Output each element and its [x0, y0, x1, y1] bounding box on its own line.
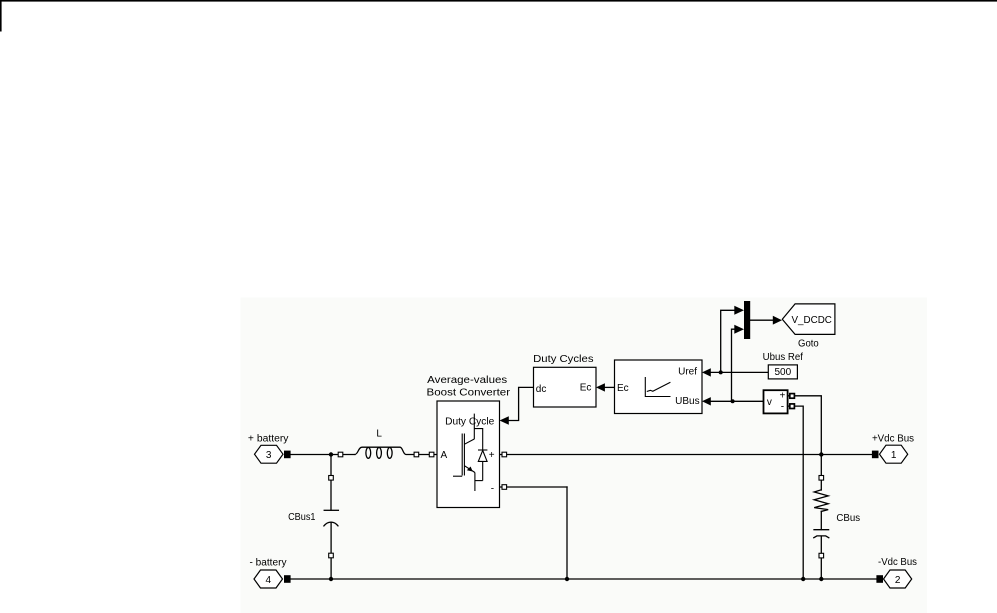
port square inductor left	[338, 452, 343, 457]
inductor L loop 3	[387, 448, 392, 459]
window top border	[0, 0, 997, 2]
diode-emitter join	[475, 480, 483, 482]
port square converter input A	[429, 452, 434, 457]
IGBT gate lead	[453, 475, 462, 477]
port connector square at port 2	[876, 575, 883, 583]
svg-text:Uref: Uref	[678, 367, 697, 378]
port connector square at port 3	[284, 451, 291, 459]
svg-text:-: -	[781, 401, 784, 412]
arrowhead into Goto tag	[773, 316, 782, 325]
svg-text:+: +	[780, 391, 786, 402]
svg-text:Boost Converter: Boost Converter	[427, 387, 511, 398]
svg-text:v: v	[767, 397, 772, 408]
junction node at CBus1 top	[329, 452, 333, 456]
IGBT gate bar left	[461, 434, 463, 476]
svg-text:Duty Cycles: Duty Cycles	[533, 354, 593, 365]
svg-text:Goto: Goto	[798, 338, 819, 349]
block Duty Cycles	[534, 367, 597, 407]
arrowhead into mux input 1	[734, 306, 744, 315]
svg-text:500: 500	[774, 367, 791, 378]
voltage measurement block v	[764, 390, 788, 413]
wire v- down to bottom bus	[788, 406, 804, 579]
svg-text:+Vdc Bus: +Vdc Bus	[872, 433, 914, 444]
canvas tint region	[241, 298, 928, 613]
mux block	[744, 301, 750, 339]
wire converter - output down to bottom bus	[566, 487, 568, 579]
junction node converter minus at bottom bus	[565, 577, 569, 581]
junction node v- at bottom bus	[801, 577, 805, 581]
arrowhead into mux input 2	[734, 325, 744, 334]
wire resistor to capacitor CBus	[820, 511, 822, 529]
svg-text:Ec: Ec	[617, 383, 629, 394]
port connector square at port 4	[284, 575, 291, 583]
port square CBus1 bottom	[329, 553, 334, 558]
svg-text:CBus: CBus	[836, 513, 860, 524]
block Average-values Boost Converter	[437, 401, 500, 508]
v block port square +	[790, 394, 795, 399]
block voltage regulator	[615, 360, 703, 414]
svg-text:Duty Cycle: Duty Cycle	[445, 417, 495, 428]
wire inductor to converter input A	[414, 454, 437, 456]
svg-text:1: 1	[891, 450, 897, 461]
IGBT collector diagonal	[464, 439, 474, 444]
v block port square -	[790, 404, 795, 409]
arrowhead into controller UBus input	[702, 397, 711, 405]
svg-text:3: 3	[266, 450, 272, 461]
svg-text:- battery: - battery	[250, 557, 287, 568]
wire mux input 2 from UBus node	[732, 329, 736, 401]
svg-text:2: 2	[895, 575, 901, 586]
IGBT emitter diagonal	[464, 466, 475, 473]
wire CBus branch lower	[820, 536, 822, 579]
port square CBus bottom	[819, 553, 824, 558]
IGBT gate bar right	[463, 434, 465, 476]
wire bottom bus	[291, 578, 877, 580]
svg-text:-Vdc Bus: -Vdc Bus	[878, 557, 917, 568]
inductor L coil path	[355, 447, 414, 454]
junction node Uref line to mux	[719, 370, 723, 374]
diode D cathode bar	[478, 449, 487, 451]
port connector square at port 1	[872, 451, 879, 459]
port square inductor right	[414, 452, 419, 457]
wire converter - output rightward	[500, 486, 568, 488]
junction node CBus bottom	[819, 577, 823, 581]
capacitor CBus lower plate	[814, 536, 829, 538]
port square CBus top	[819, 476, 824, 481]
IGBT Q collector lead vertical	[473, 414, 475, 440]
svg-text:CBus1: CBus1	[288, 512, 316, 523]
junction node at CBus top / v+	[819, 452, 823, 456]
svg-text:+: +	[489, 450, 495, 461]
arrowhead into converter Duty Cycle port	[500, 416, 509, 425]
wire Ec controller to Duty Cycles	[604, 386, 615, 388]
port square converter output +	[502, 452, 507, 457]
svg-text:V_DCDC: V_DCDC	[792, 315, 832, 326]
svg-text:Average-values: Average-values	[427, 375, 507, 386]
constant block Ubus Ref 500	[768, 365, 797, 379]
wire CBus branch upper	[820, 455, 822, 491]
inport 4 hexagon	[254, 570, 283, 588]
resistor CBus R zigzag	[814, 490, 828, 512]
capacitor CBus top plate	[814, 529, 829, 531]
inductor L loop 1	[366, 448, 371, 459]
diode D anode lead	[482, 461, 484, 480]
capacitor CBus1 top plate	[324, 509, 338, 511]
diode D triangle	[478, 450, 487, 461]
outport 2 hexagon	[884, 570, 912, 588]
wire UBus measurement to controller	[710, 400, 764, 402]
inport 3 hexagon	[255, 445, 284, 463]
wire dc output of Duty Cycles to converter Duty Cycle port	[508, 387, 534, 420]
port square CBus1 top	[329, 476, 334, 481]
wire mux output to Goto	[750, 319, 773, 321]
arrowhead into controller Uref input	[702, 368, 711, 376]
svg-text:UBus: UBus	[675, 396, 699, 407]
svg-text:Ec: Ec	[580, 383, 592, 394]
wire CBus1 branch lower	[330, 522, 332, 579]
svg-text:dc: dc	[536, 384, 547, 395]
IGBT emitter lead vertical	[474, 473, 476, 492]
capacitor CBus1 curved plate	[324, 522, 338, 526]
svg-text:4: 4	[266, 575, 272, 586]
wire CBus1 branch upper	[330, 455, 332, 511]
junction node UBus line to mux	[731, 399, 735, 403]
regulator icon curve	[647, 382, 671, 391]
wire v+ to bus junction	[788, 396, 822, 455]
wire mux input 1 from Uref node	[721, 310, 735, 372]
svg-text:+ battery: + battery	[248, 433, 289, 444]
junction node CBus1 bottom	[329, 577, 333, 581]
port square converter output -	[502, 485, 507, 490]
svg-text:Ubus Ref: Ubus Ref	[763, 352, 804, 363]
outport 1 hexagon	[880, 445, 908, 463]
inductor L loop 2	[377, 448, 382, 459]
branch to diode top	[474, 429, 482, 450]
window left border stub	[0, 0, 2, 32]
wire top bus left segment	[291, 454, 356, 456]
wire Uref constant to controller	[710, 371, 768, 373]
svg-text:L: L	[376, 429, 382, 440]
arrowhead into Duty Cycles Ec input	[596, 383, 605, 391]
wire top bus converter + output to port 1	[500, 454, 872, 456]
Goto tag V_DCDC	[782, 304, 835, 335]
regulator icon axes	[645, 377, 670, 397]
IGBT emitter arrowhead	[467, 467, 473, 472]
svg-text:A: A	[441, 450, 448, 461]
svg-text:-: -	[491, 484, 494, 495]
